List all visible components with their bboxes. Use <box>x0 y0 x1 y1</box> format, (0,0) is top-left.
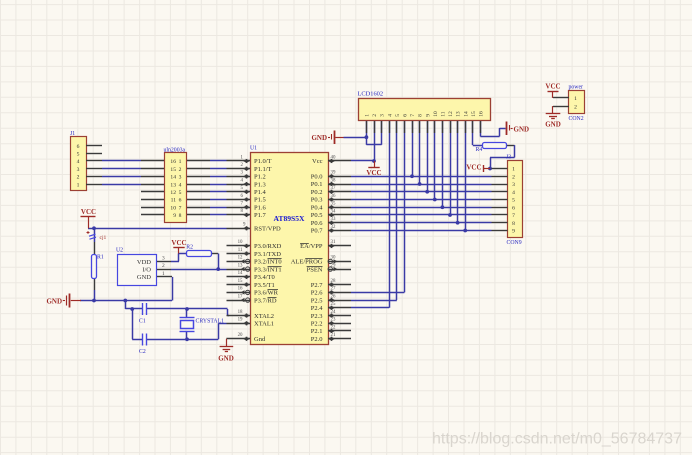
svg-text:P2.5: P2.5 <box>311 297 323 304</box>
resistor R1 <box>92 255 104 279</box>
svg-text:P2.4: P2.4 <box>311 305 323 312</box>
svg-text:31: 31 <box>331 240 336 245</box>
svg-text:VCC: VCC <box>81 208 96 216</box>
capacitor cj1 <box>87 231 107 241</box>
svg-text:33: 33 <box>331 217 336 222</box>
svg-text:21: 21 <box>331 333 336 338</box>
svg-text:12: 12 <box>448 111 454 117</box>
svg-text:U1: U1 <box>250 146 257 152</box>
svg-text:6: 6 <box>179 198 182 204</box>
svg-text:P3.6/WR: P3.6/WR <box>254 290 279 297</box>
svg-text:VDD: VDD <box>137 259 151 266</box>
wire U2 I/O pin to U1 P3.3 <box>171 269 227 271</box>
svg-text:37: 37 <box>331 186 336 191</box>
svg-text:19: 19 <box>238 318 243 323</box>
svg-text:35: 35 <box>331 202 336 207</box>
svg-text:18: 18 <box>238 310 243 315</box>
wire LCD RS RW E pins to U1 P2.4 P2.5 P2.6 <box>351 120 405 308</box>
svg-text:P1.5: P1.5 <box>254 197 266 204</box>
svg-text:P1.1/T: P1.1/T <box>254 166 272 173</box>
svg-text:34: 34 <box>331 209 336 214</box>
svg-text:30: 30 <box>331 256 336 261</box>
ic U1 AT89S5X microcontroller <box>226 146 351 345</box>
svg-text:6: 6 <box>77 144 80 150</box>
svg-text:P0.4: P0.4 <box>311 204 323 211</box>
wire U1 P0.0-P0.7 to LCD D0-D7 and CON9 <box>351 120 492 232</box>
svg-text:GND: GND <box>137 274 151 281</box>
svg-text:2: 2 <box>512 174 515 180</box>
svg-text:C2: C2 <box>139 349 146 355</box>
svg-text:P0.1: P0.1 <box>311 181 323 188</box>
svg-text:5: 5 <box>77 152 80 158</box>
capacitor C1 <box>139 303 147 325</box>
svg-text:GND: GND <box>218 355 234 363</box>
svg-text:2: 2 <box>574 104 577 110</box>
svg-text:power: power <box>569 85 584 91</box>
svg-text:1: 1 <box>162 271 165 277</box>
svg-text:P0.7: P0.7 <box>311 228 323 235</box>
svg-text:P3.7/RD: P3.7/RD <box>254 297 277 304</box>
wire LCD pin 16 to GND <box>480 120 505 137</box>
svg-text:12: 12 <box>238 256 243 261</box>
svg-text:RST/VPD: RST/VPD <box>254 226 281 233</box>
svg-text:P0.2: P0.2 <box>311 189 323 196</box>
power VCC at R2 <box>171 239 186 254</box>
wire uln2003a outputs to U1 P1.0-P1.7 <box>210 161 227 215</box>
power VCC at CON2 <box>545 83 560 98</box>
svg-text:7: 7 <box>410 114 416 117</box>
svg-text:1: 1 <box>77 182 80 188</box>
capacitor C2 <box>139 334 147 356</box>
wire LCD pin 15 to R4 <box>473 120 484 146</box>
svg-text:P2.6: P2.6 <box>311 290 323 297</box>
svg-text:8: 8 <box>179 213 182 219</box>
svg-text:5: 5 <box>179 190 182 196</box>
svg-text:8: 8 <box>418 114 424 117</box>
svg-text:P3.4/T0: P3.4/T0 <box>254 274 275 281</box>
svg-text:3: 3 <box>512 182 515 188</box>
svg-text:P0.0: P0.0 <box>311 173 323 180</box>
svg-text:P0.3: P0.3 <box>311 197 323 204</box>
svg-text:CRYSTAL1: CRYSTAL1 <box>196 319 225 325</box>
svg-text:5: 5 <box>512 198 515 204</box>
svg-text:P3.5/T1: P3.5/T1 <box>254 282 275 289</box>
svg-text:13: 13 <box>170 182 176 188</box>
svg-text:1: 1 <box>574 96 577 102</box>
svg-text:2: 2 <box>372 114 378 117</box>
ic uln2003a <box>141 148 210 223</box>
ground GND at CON2 <box>545 106 561 128</box>
svg-text:XTAL2: XTAL2 <box>254 313 274 320</box>
svg-text:P1.6: P1.6 <box>254 204 266 211</box>
wire ground rail to U2 GND pin <box>80 277 173 303</box>
wire VCC node to U1 RST/VPD pin 9 <box>88 226 227 230</box>
svg-text:P2.0: P2.0 <box>311 336 323 343</box>
svg-text:3: 3 <box>77 167 80 173</box>
svg-text:4: 4 <box>179 182 182 188</box>
svg-text:11: 11 <box>441 111 447 117</box>
svg-text:P3.0/RXD: P3.0/RXD <box>254 243 282 250</box>
svg-text:GND: GND <box>311 134 327 142</box>
svg-text:13: 13 <box>238 263 243 268</box>
svg-text:38: 38 <box>331 178 336 183</box>
svg-text:3: 3 <box>380 114 386 117</box>
svg-text:3: 3 <box>162 256 165 262</box>
svg-text:32: 32 <box>331 225 336 230</box>
svg-text:P3.3/INT1: P3.3/INT1 <box>254 266 282 273</box>
svg-text:P1.4: P1.4 <box>254 189 266 196</box>
svg-text:7: 7 <box>512 213 515 219</box>
svg-text:VCC: VCC <box>466 163 481 171</box>
svg-text:27: 27 <box>331 287 336 292</box>
svg-text:P3.2/INT0: P3.2/INT0 <box>254 259 282 266</box>
svg-text:cj1: cj1 <box>100 235 107 241</box>
svg-text:16: 16 <box>479 111 485 117</box>
resistor R4 <box>476 143 507 154</box>
svg-text:2: 2 <box>77 175 80 181</box>
svg-text:GND: GND <box>46 298 62 306</box>
svg-text:29: 29 <box>331 263 336 268</box>
svg-text:AT89S5X: AT89S5X <box>273 214 305 223</box>
resistor R2 <box>186 244 211 256</box>
wire J1 pins 4-1 to uln2003a inputs <box>102 161 141 185</box>
wire R2 to U2 I/O data net <box>211 254 220 272</box>
svg-text:P1.7: P1.7 <box>254 212 266 219</box>
wire R4 to VCC node at CON9 pin 1 <box>488 145 514 170</box>
svg-text:6: 6 <box>512 205 515 211</box>
svg-text:1: 1 <box>179 159 182 165</box>
svg-text:26: 26 <box>331 294 336 299</box>
svg-text:P0.6: P0.6 <box>311 220 323 227</box>
svg-text:P0.5: P0.5 <box>311 212 323 219</box>
wire U2 VDD pin to VCC and R2 <box>171 254 186 262</box>
svg-text:P2.2: P2.2 <box>311 321 323 328</box>
svg-text:7: 7 <box>179 205 182 211</box>
wire U1 Vcc pin 40 to LCD pin 2 and VCC <box>351 120 376 163</box>
svg-text:20: 20 <box>238 333 243 338</box>
connector CON2 power <box>553 85 585 122</box>
svg-text:25: 25 <box>331 302 336 307</box>
svg-text:28: 28 <box>331 279 336 284</box>
crystal CRYSTAL1 <box>180 318 225 332</box>
svg-text:VCC: VCC <box>366 169 381 177</box>
svg-text:4: 4 <box>512 190 515 196</box>
svg-text:10: 10 <box>238 240 243 245</box>
svg-text:13: 13 <box>456 111 462 117</box>
ic U2 sensor <box>116 248 172 286</box>
svg-text:5: 5 <box>395 114 401 117</box>
svg-text:14: 14 <box>170 175 176 181</box>
svg-text:2: 2 <box>162 263 165 269</box>
wire ground to C1 and C2 <box>125 301 142 340</box>
svg-text:24: 24 <box>331 310 336 315</box>
svg-text:P2.7: P2.7 <box>311 282 323 289</box>
wire GND to LCD pins 1 and 3 <box>344 120 382 145</box>
svg-text:GND: GND <box>514 126 530 134</box>
svg-text:https://blog.csdn.net/m0_56784: https://blog.csdn.net/m0_56784737 <box>432 431 682 448</box>
wire crystal leads <box>186 309 188 339</box>
svg-text:CON9: CON9 <box>507 240 522 246</box>
lcd module LCD1602 <box>358 91 491 134</box>
svg-text:12: 12 <box>170 190 176 196</box>
svg-text:9: 9 <box>173 213 176 219</box>
svg-text:10: 10 <box>433 111 439 117</box>
svg-text:P1.3: P1.3 <box>254 181 266 188</box>
svg-text:1: 1 <box>512 167 515 173</box>
svg-text:J3: J3 <box>506 155 511 161</box>
ground GND at LCD pin 16 <box>507 122 530 136</box>
svg-text:XTAL1: XTAL1 <box>254 321 274 328</box>
svg-text:1: 1 <box>365 114 371 117</box>
svg-text:EA/VPP: EA/VPP <box>300 243 323 250</box>
svg-text:Gnd: Gnd <box>254 336 266 343</box>
wire C1 / crystal top to U1 XTAL2 <box>147 307 229 316</box>
svg-text:10: 10 <box>170 205 176 211</box>
power VCC at U1 Vcc pin <box>366 161 381 177</box>
svg-text:15: 15 <box>170 167 176 173</box>
svg-text:R2: R2 <box>186 244 193 250</box>
svg-text:P2.3: P2.3 <box>311 313 323 320</box>
connector J1 <box>70 131 102 191</box>
svg-text:8: 8 <box>512 221 515 227</box>
svg-text:uln2003a: uln2003a <box>164 148 186 154</box>
svg-text:9: 9 <box>512 229 515 235</box>
svg-text:2: 2 <box>179 167 182 173</box>
svg-text:P3.1/TXD: P3.1/TXD <box>254 251 281 258</box>
wire C2 / crystal bottom to U1 XTAL1 <box>147 323 227 341</box>
ground GND at rail left <box>46 294 81 308</box>
ground GND at U1 Gnd pin <box>218 339 234 363</box>
svg-text:P2.1: P2.1 <box>311 328 323 335</box>
svg-text:9: 9 <box>425 114 431 117</box>
svg-text:16: 16 <box>238 287 243 292</box>
wire R1 branch VCC node to ground rail <box>94 228 96 300</box>
svg-text:VCC: VCC <box>171 239 186 247</box>
svg-text:Vcc: Vcc <box>312 158 323 165</box>
svg-text:LCD1602: LCD1602 <box>358 91 384 98</box>
svg-text:PSEN: PSEN <box>307 266 323 273</box>
svg-text:14: 14 <box>463 111 469 117</box>
ground GND at LCD pin 1 <box>311 131 343 145</box>
svg-text:3: 3 <box>179 175 182 181</box>
svg-text:15: 15 <box>471 111 477 117</box>
power VCC at RST pullup <box>81 208 97 228</box>
svg-text:11: 11 <box>171 198 177 204</box>
svg-text:VCC: VCC <box>545 83 560 91</box>
svg-text:ALE/PROG: ALE/PROG <box>291 259 323 266</box>
svg-text:40: 40 <box>331 155 336 160</box>
svg-text:R1: R1 <box>97 255 104 261</box>
svg-text:36: 36 <box>331 194 336 199</box>
svg-text:I/O: I/O <box>142 267 151 274</box>
svg-text:15: 15 <box>238 279 243 284</box>
svg-text:11: 11 <box>238 248 243 253</box>
svg-text:16: 16 <box>170 159 176 165</box>
svg-text:GND: GND <box>545 121 561 129</box>
svg-text:39: 39 <box>331 171 336 176</box>
svg-text:4: 4 <box>387 114 393 117</box>
svg-text:U2: U2 <box>116 248 123 254</box>
svg-text:4: 4 <box>77 159 80 165</box>
svg-text:CON2: CON2 <box>569 116 584 122</box>
svg-text:22: 22 <box>331 325 336 330</box>
svg-text:17: 17 <box>238 294 243 299</box>
svg-text:R4: R4 <box>476 147 483 153</box>
power VCC at CON9 <box>466 163 490 172</box>
svg-text:14: 14 <box>238 271 243 276</box>
svg-text:6: 6 <box>403 114 409 117</box>
svg-text:23: 23 <box>331 318 336 323</box>
svg-text:P1.2: P1.2 <box>254 174 266 181</box>
svg-text:P1.0/T: P1.0/T <box>254 158 272 165</box>
svg-text:J1: J1 <box>70 131 75 137</box>
connector J3 CON9 <box>492 155 523 247</box>
svg-text:C1: C1 <box>139 319 146 325</box>
